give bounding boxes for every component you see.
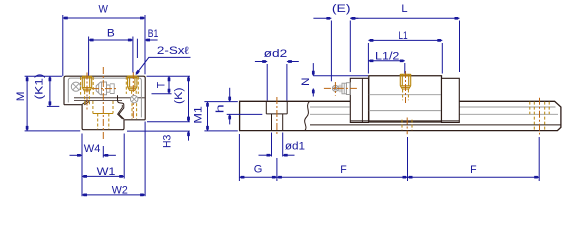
bolt centerline right	[132, 72, 134, 120]
rail mounting hole (sectioned): through hole	[271, 114, 273, 131]
svg-text:h: h	[215, 104, 227, 113]
dimension W	[62, 15, 64, 76]
dimension H3	[127, 130, 190, 132]
dimension F (first)	[276, 158, 278, 181]
nipple centerline vert	[334, 82, 336, 96]
bolt centerline left	[86, 73, 88, 111]
dimension (K)	[147, 121, 190, 123]
dimension (E)	[330, 21, 332, 82]
end seal outline (gray)	[68, 78, 141, 117]
svg-text:(K1): (K1)	[33, 74, 45, 100]
svg-text:T: T	[155, 81, 167, 88]
rail centerline (end view)	[102, 67, 104, 141]
dimension T	[147, 75, 191, 77]
nipple ring 2	[110, 84, 114, 94]
rail top edge line	[74, 100, 122, 102]
carriage bottom-right edge	[125, 119, 146, 121]
dimension L	[349, 21, 351, 73]
carriage bolt centerline	[405, 71, 407, 103]
carriage bolt hole (L1/2, hidden)	[399, 74, 401, 86]
channel roof line	[74, 97, 145, 99]
dimension B1	[136, 39, 138, 58]
dimension W1	[123, 134, 125, 179]
svg-text:W2: W2	[112, 184, 128, 196]
carriage lip chamfer left (outer)	[82, 101, 88, 105]
dimension W4	[81, 134, 83, 197]
rail (side view)	[240, 101, 561, 130]
carriage body line (gray)	[369, 94, 442, 96]
carriage end plate right	[442, 78, 460, 122]
svg-text:W4: W4	[84, 143, 101, 155]
svg-text:N: N	[300, 77, 312, 86]
rail hole 3 (hidden)	[529, 102, 531, 115]
svg-text:(E): (E)	[332, 3, 351, 15]
dimension &#248;d2	[266, 64, 268, 101]
dimension B	[88, 37, 90, 76]
svg-text:M1: M1	[193, 106, 205, 124]
svg-text:(K): (K)	[173, 87, 185, 104]
dimension G	[238, 134, 240, 181]
svg-text:W1: W1	[97, 166, 116, 178]
svg-text:B: B	[107, 27, 115, 39]
end-seal screw left (circle-X)	[71, 82, 80, 91]
dimension F (second)	[538, 137, 540, 181]
svg-text:ød1: ød1	[285, 140, 305, 152]
rail break line (S-curve)	[305, 101, 310, 130]
rail mounting hole (end view, hidden)	[92, 101, 94, 114]
svg-text:L1: L1	[398, 30, 407, 42]
svg-text:W: W	[99, 4, 108, 16]
nipple centerline horiz	[324, 87, 358, 89]
carriage body line 2 (gray)	[369, 110, 442, 112]
rail groove line upper (left seg)	[310, 106, 350, 108]
dimension &#248;d1	[271, 133, 273, 157]
nipple boss	[346, 83, 350, 95]
carriage block outline (end view)	[64, 76, 145, 120]
svg-text:G: G	[254, 164, 263, 176]
rail groove line lower (right seg)	[458, 113, 558, 115]
svg-text:ød2: ød2	[264, 48, 288, 60]
nipple ring 1	[107, 85, 111, 92]
mounting bolt left (S thread)	[80, 77, 82, 95]
end plate/seal split line	[361, 78, 363, 122]
carriage lip notch right (inner echo)	[118, 105, 123, 119]
dimension M1	[204, 101, 237, 103]
svg-text:B1: B1	[148, 28, 159, 40]
svg-text:L: L	[401, 3, 407, 15]
dimension L1/2	[404, 63, 406, 74]
rail groove line upper (right seg)	[458, 106, 556, 108]
rail hole 3 centerline	[539, 98, 541, 135]
carriage lip chamfer left (inner)	[84, 101, 89, 105]
grease nipple head (end view)	[96, 82, 106, 95]
mounting bolt right (S thread)	[125, 77, 127, 94]
hole centerline	[276, 97, 278, 135]
dimension h	[227, 113, 263, 115]
dimension L1	[367, 43, 369, 74]
dimension M	[25, 75, 62, 77]
nipple centerline horiz (end view)	[92, 88, 117, 90]
carriage bottom edge line	[350, 120, 459, 122]
svg-text:F: F	[340, 164, 347, 176]
dimension W2	[144, 122, 146, 197]
end-seal screw right (circle-X)	[131, 96, 138, 103]
dimension N	[313, 75, 368, 77]
carriage channel wall + lip notch right (outer)	[118, 95, 125, 119]
rail groove line lower (left seg)	[310, 113, 350, 115]
grease nipple (side view)	[332, 85, 338, 91]
rail lower edge line	[310, 124, 561, 126]
rail hole 2 (hidden, below carriage)	[401, 120, 403, 131]
svg-text:F: F	[470, 164, 477, 176]
rail cross-section sides/bottom	[82, 105, 124, 130]
svg-text:L1/2: L1/2	[375, 50, 400, 62]
svg-text:M: M	[15, 92, 27, 102]
dimension (K1)	[47, 105, 59, 107]
svg-text:2-Sxℓ: 2-Sxℓ	[157, 45, 190, 57]
svg-text:H3: H3	[161, 135, 173, 148]
carriage body	[369, 76, 442, 122]
carriage bottom-left edge	[64, 104, 82, 106]
rail mounting hole (sectioned): counterbore	[265, 101, 267, 114]
carriage end plate left	[350, 78, 368, 122]
